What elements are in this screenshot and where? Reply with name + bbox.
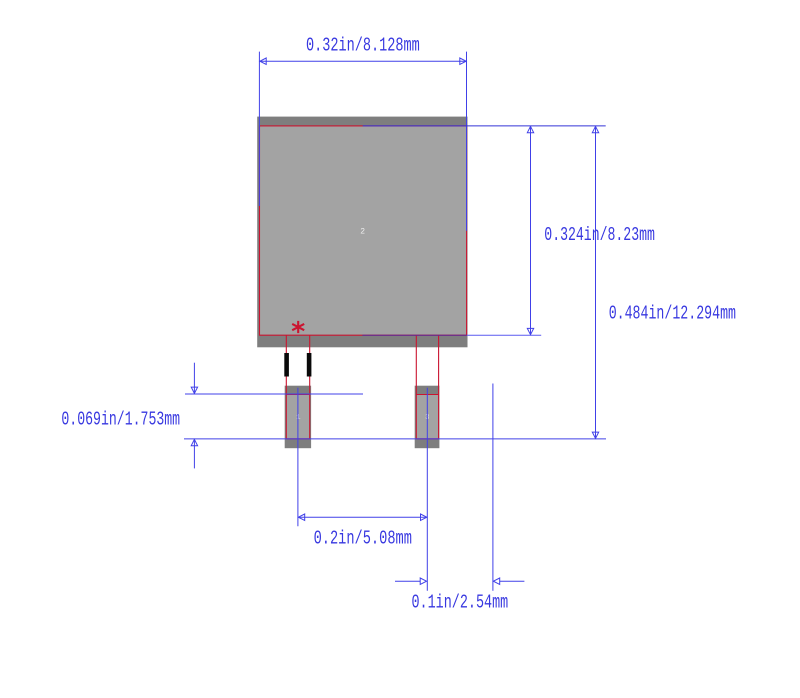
- lead foot dimension line upper: [193, 363, 195, 394]
- lead 1 outline: [286, 335, 309, 439]
- pad pitch arrow left: [298, 514, 304, 520]
- svg-text:0.324in/8.23mm: 0.324in/8.23mm: [544, 224, 655, 246]
- pad pitch dimension line: [298, 516, 426, 518]
- body height dimension line: [530, 126, 532, 334]
- svg-text:0.32in/8.128mm: 0.32in/8.128mm: [306, 34, 420, 56]
- component body overlay on pad 2: [260, 126, 466, 334]
- body top extension line: [363, 125, 606, 127]
- lead foot arrow up: [191, 439, 197, 445]
- width dimension arrow left: [260, 58, 266, 64]
- overall height arrow top: [592, 126, 598, 132]
- pin 1 marker asterisk: [292, 321, 304, 333]
- width dimension extension line left: [258, 52, 260, 206]
- pitch reference line: [492, 384, 494, 591]
- half pitch arrow pointing left: [493, 578, 499, 584]
- body height arrow top: [527, 126, 533, 132]
- width dimension arrow right: [460, 58, 466, 64]
- lead foot dimension line lower: [193, 439, 195, 468]
- pad 1 copper: [285, 386, 311, 449]
- svg-text:0.069in/1.753mm: 0.069in/1.753mm: [61, 409, 180, 431]
- half pitch arrow pointing right: [420, 578, 426, 584]
- half pitch dimension line left: [395, 580, 420, 582]
- lead foot arrow down: [191, 387, 197, 393]
- pad 3 center line: [426, 388, 428, 591]
- width dimension extension line right: [466, 52, 468, 231]
- pad 3 copper: [415, 386, 440, 449]
- width dimension line: [260, 60, 466, 62]
- overall height dimension line: [595, 126, 597, 438]
- svg-text:1: 1: [296, 414, 301, 422]
- svg-text:0.2in/5.08mm: 0.2in/5.08mm: [314, 528, 412, 550]
- body height arrow bottom: [527, 328, 533, 334]
- pads bottom extension line: [184, 438, 606, 440]
- pad 1 center line: [297, 388, 299, 527]
- lead foot top extension line: [185, 393, 363, 395]
- svg-text:2: 2: [360, 227, 365, 236]
- body bottom extension line on white: [467, 334, 541, 336]
- svg-text:0.484in/12.294mm: 0.484in/12.294mm: [609, 303, 736, 325]
- component body outline: [260, 126, 467, 335]
- half pitch dimension line right: [500, 580, 525, 582]
- overall height arrow bottom: [592, 432, 598, 438]
- lead 1 left edge bar: [284, 353, 289, 377]
- pad pitch arrow right: [421, 514, 427, 520]
- body bottom extension line over body: [362, 334, 467, 336]
- pad 2 (tab) copper: [257, 117, 467, 348]
- svg-text:0.1in/2.54mm: 0.1in/2.54mm: [412, 591, 509, 613]
- lead 3 outline: [416, 335, 438, 439]
- lead 3 foot overlay: [416, 395, 438, 439]
- lead 1 right edge bar: [307, 353, 312, 377]
- lead 1 foot overlay: [286, 395, 309, 439]
